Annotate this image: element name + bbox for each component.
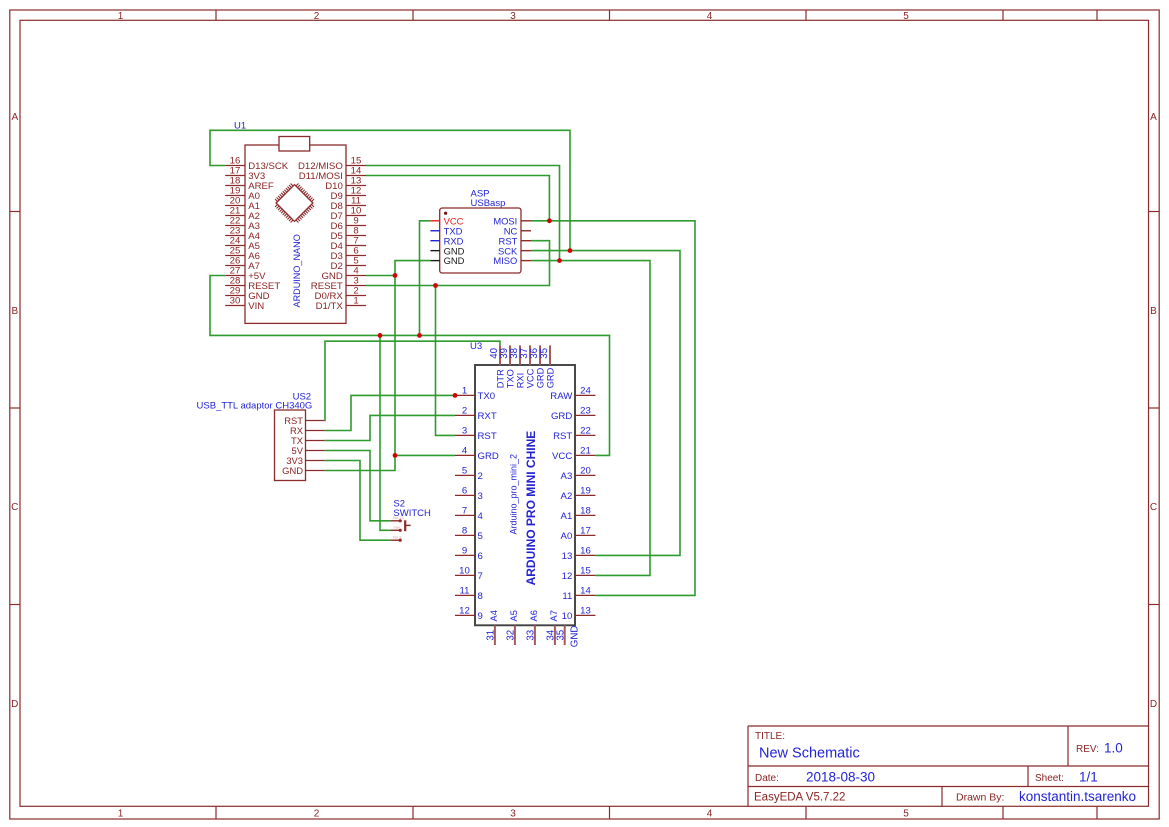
svg-text:12: 12 xyxy=(562,571,573,582)
svg-text:A: A xyxy=(1150,112,1157,123)
svg-text:Sheet:: Sheet: xyxy=(1035,773,1064,784)
svg-text:7: 7 xyxy=(478,571,483,582)
svg-text:1.0: 1.0 xyxy=(1104,741,1123,756)
junction MOSI node xyxy=(547,218,552,223)
svg-text:1/1: 1/1 xyxy=(1079,770,1098,785)
IC ASP USBasp programmer xyxy=(430,189,531,274)
US2 pins RST RX TX 5V 3V3 GND xyxy=(306,420,325,422)
svg-text:2: 2 xyxy=(314,11,320,22)
svg-text:Drawn By:: Drawn By: xyxy=(956,792,1004,804)
svg-text:11: 11 xyxy=(460,585,470,596)
svg-text:22: 22 xyxy=(580,425,591,436)
svg-text:No.3: No.3 xyxy=(393,535,402,540)
svg-text:RXI: RXI xyxy=(516,373,526,389)
IC U1 ARDUINO_NANO xyxy=(225,121,366,324)
wire net GND to US2.GND xyxy=(325,455,395,470)
wire net 5V: US2.5V to S2 pin1 xyxy=(325,451,391,521)
wire net GND vertical trunk xyxy=(394,276,396,456)
junction MISO node xyxy=(557,258,562,263)
svg-text:13: 13 xyxy=(580,605,591,616)
svg-text:9: 9 xyxy=(478,611,483,622)
svg-text:Arduino_pro_mini_2: Arduino_pro_mini_2 xyxy=(509,454,519,535)
svg-text:TX0: TX0 xyxy=(478,391,496,402)
junction RXD at U3 TX0 xyxy=(453,393,458,398)
svg-text:nav: nav xyxy=(394,524,400,529)
svg-text:6: 6 xyxy=(462,485,467,496)
svg-text:9: 9 xyxy=(462,545,467,556)
switch S2 xyxy=(390,499,431,542)
svg-text:D: D xyxy=(11,699,18,710)
ASP left pins VCC TXD RXD GND GND xyxy=(430,220,439,222)
svg-text:8: 8 xyxy=(478,591,483,602)
svg-text:1: 1 xyxy=(118,809,124,820)
IC U3 Arduino Pro Mini xyxy=(455,341,595,647)
svg-text:A7: A7 xyxy=(549,610,559,621)
svg-text:21: 21 xyxy=(580,445,591,456)
U3 top pins 40-35 DTR TXO RXI VCC GRD GRD xyxy=(499,345,501,365)
S2 lever symbol xyxy=(404,520,406,531)
svg-text:18: 18 xyxy=(580,505,591,516)
wire net TXD: US2.TX to U3.RXT xyxy=(325,415,455,440)
junction +5V at S2 branch xyxy=(378,333,383,338)
svg-text:15: 15 xyxy=(580,565,591,576)
svg-text:New Schematic: New Schematic xyxy=(759,746,860,762)
svg-text:8: 8 xyxy=(462,525,467,536)
wire net GND: USBasp.GND2 link xyxy=(395,261,430,276)
svg-text:2: 2 xyxy=(478,471,483,482)
S2 tiny pin name labels xyxy=(393,515,404,540)
ASP right pins MOSI NC RST SCK MISO xyxy=(521,220,531,222)
wire net DTR: US2.RST to U3.DTR xyxy=(325,341,500,420)
svg-text:2018-08-30: 2018-08-30 xyxy=(806,770,875,785)
svg-text:RST: RST xyxy=(553,431,572,442)
junction GND at U3 GRD xyxy=(393,453,398,458)
svg-text:12: 12 xyxy=(459,605,470,616)
svg-text:D: D xyxy=(1150,699,1157,710)
title block xyxy=(748,726,1149,806)
S2 pin stubs with end dots xyxy=(390,521,400,540)
svg-text:MISO: MISO xyxy=(493,255,517,266)
svg-text:19: 19 xyxy=(580,485,591,496)
wire net RXD: US2.RX to U3.TX0 xyxy=(325,395,455,430)
svg-text:EasyEDA V5.7.22: EasyEDA V5.7.22 xyxy=(754,792,845,804)
svg-text:5: 5 xyxy=(462,465,467,476)
svg-text:4: 4 xyxy=(462,445,468,456)
svg-text:1: 1 xyxy=(462,385,467,396)
svg-text:GND: GND xyxy=(570,626,581,648)
connector US2 USB_TTL adaptor CH340G xyxy=(197,391,325,480)
svg-text:11: 11 xyxy=(562,591,572,602)
svg-text:7: 7 xyxy=(462,505,467,516)
wire net 3V3: US2.3V3 to S2 pin3 xyxy=(325,461,391,541)
U1 USB connector rectangle xyxy=(279,137,310,152)
svg-text:23: 23 xyxy=(580,405,591,416)
svg-text:B: B xyxy=(1150,306,1157,317)
wire net +5V branch to USBasp.VCC xyxy=(420,221,431,336)
wire net D11/MOSI: U1.14 to MOSI node xyxy=(366,176,549,221)
svg-text:32: 32 xyxy=(506,630,517,641)
wire net RST branch to U3.RST xyxy=(436,286,456,436)
US2 body outline xyxy=(275,410,306,481)
svg-text:ARDUINO_NANO: ARDUINO_NANO xyxy=(292,234,302,307)
svg-text:20: 20 xyxy=(580,465,591,476)
svg-text:3: 3 xyxy=(510,809,516,820)
svg-text:2: 2 xyxy=(462,405,467,416)
svg-text:GND: GND xyxy=(444,255,465,266)
svg-text:No.13: No.13 xyxy=(393,515,404,520)
svg-text:D1/TX: D1/TX xyxy=(316,301,344,312)
wire net MOSI: USBasp.MOSI to U3.14 xyxy=(531,221,695,596)
svg-text:3: 3 xyxy=(478,491,483,502)
U3 body outline xyxy=(475,365,575,625)
svg-text:A0: A0 xyxy=(561,531,573,542)
svg-text:16: 16 xyxy=(580,545,591,556)
svg-text:DTR: DTR xyxy=(496,369,506,388)
wire net GND to U3.GRD pin4 xyxy=(395,454,455,456)
svg-text:konstantin.tsarenko: konstantin.tsarenko xyxy=(1019,789,1136,804)
svg-text:REV:: REV: xyxy=(1076,744,1099,755)
svg-text:B: B xyxy=(11,306,18,317)
svg-text:4: 4 xyxy=(707,11,713,22)
svg-text:GRD: GRD xyxy=(478,451,499,462)
wire net +5V branch to S2 pin2 xyxy=(380,335,390,530)
ASP body outline xyxy=(440,208,521,273)
wire net GND: U1.GND pin4 stub link xyxy=(366,275,395,277)
svg-text:31: 31 xyxy=(486,630,497,641)
svg-text:4: 4 xyxy=(478,511,484,522)
svg-text:33: 33 xyxy=(526,630,537,641)
svg-text:VIN: VIN xyxy=(248,301,264,312)
svg-text:GRD: GRD xyxy=(536,367,546,388)
svg-text:ARDUINO PRO MINI CHINE: ARDUINO PRO MINI CHINE xyxy=(524,431,538,586)
U3 bottom pins 31-35 A4 A5 A6 A7 GND xyxy=(494,625,496,645)
wire net +5V: U1.+5V to U3.VCC xyxy=(210,276,610,456)
wire net RST: USBasp.RST to U1.RESET xyxy=(366,241,550,286)
svg-text:C: C xyxy=(1150,502,1157,513)
svg-text:3: 3 xyxy=(510,11,516,22)
svg-text:10: 10 xyxy=(459,565,470,576)
svg-text:VCC: VCC xyxy=(526,368,536,388)
wire net D12/MISO: U1.15 to MISO node xyxy=(366,166,560,261)
svg-text:GND: GND xyxy=(282,465,303,476)
svg-text:A6: A6 xyxy=(529,610,539,621)
svg-text:13: 13 xyxy=(562,551,573,562)
svg-text:35: 35 xyxy=(539,348,550,359)
svg-text:U3: U3 xyxy=(470,341,482,352)
svg-text:RST: RST xyxy=(478,431,497,442)
svg-text:Date:: Date: xyxy=(755,773,779,784)
svg-text:C: C xyxy=(11,502,18,513)
svg-text:A2: A2 xyxy=(561,491,573,502)
svg-text:1: 1 xyxy=(118,11,124,22)
svg-text:A: A xyxy=(11,112,18,123)
svg-text:4: 4 xyxy=(707,809,713,820)
svg-text:A1: A1 xyxy=(561,511,573,522)
junction +5V at USBasp VCC branch xyxy=(417,333,422,338)
svg-text:TXO: TXO xyxy=(506,369,516,388)
ASP pin-1 dot xyxy=(444,212,447,215)
junction RST node xyxy=(433,283,438,288)
svg-text:1: 1 xyxy=(353,296,358,307)
svg-text:GRD: GRD xyxy=(546,367,556,388)
svg-text:A4: A4 xyxy=(489,610,499,621)
wire net D13/SCK: U1.16 to USBasp.SCK xyxy=(210,130,570,250)
U1 body outline xyxy=(245,145,346,323)
U1 right pins 15-1 with numbers and names xyxy=(346,166,366,306)
svg-text:35: 35 xyxy=(556,630,567,641)
svg-text:3: 3 xyxy=(462,425,467,436)
U1 chip diamond decoration xyxy=(271,180,318,227)
svg-text:24: 24 xyxy=(580,385,591,396)
wire net SCK: USBasp.SCK to U3.16 xyxy=(531,251,680,556)
wire net MISO: USBasp.MISO to U3.15 xyxy=(531,261,650,576)
svg-text:30: 30 xyxy=(230,296,241,307)
svg-text:5: 5 xyxy=(903,809,909,820)
svg-text:6: 6 xyxy=(478,551,483,562)
svg-text:GRD: GRD xyxy=(551,411,572,422)
U3 left pins 1-12 xyxy=(455,394,475,396)
svg-text:VCC: VCC xyxy=(552,451,572,462)
svg-text:5: 5 xyxy=(478,531,483,542)
svg-text:2: 2 xyxy=(314,809,320,820)
junction GND at U1 pin4 xyxy=(393,273,398,278)
junction SCK node xyxy=(568,248,573,253)
svg-text:RXT: RXT xyxy=(478,411,497,422)
svg-text:TITLE:: TITLE: xyxy=(755,731,785,742)
U1 left pins 16-30 with numbers and names xyxy=(225,166,245,306)
svg-text:10: 10 xyxy=(562,611,573,622)
svg-text:5: 5 xyxy=(903,11,909,22)
svg-text:A5: A5 xyxy=(509,610,519,621)
svg-text:14: 14 xyxy=(580,585,591,596)
svg-text:A3: A3 xyxy=(561,471,573,482)
svg-text:17: 17 xyxy=(580,525,591,536)
U3 right pins 24-13 xyxy=(575,394,595,396)
svg-text:RAW: RAW xyxy=(550,391,573,402)
